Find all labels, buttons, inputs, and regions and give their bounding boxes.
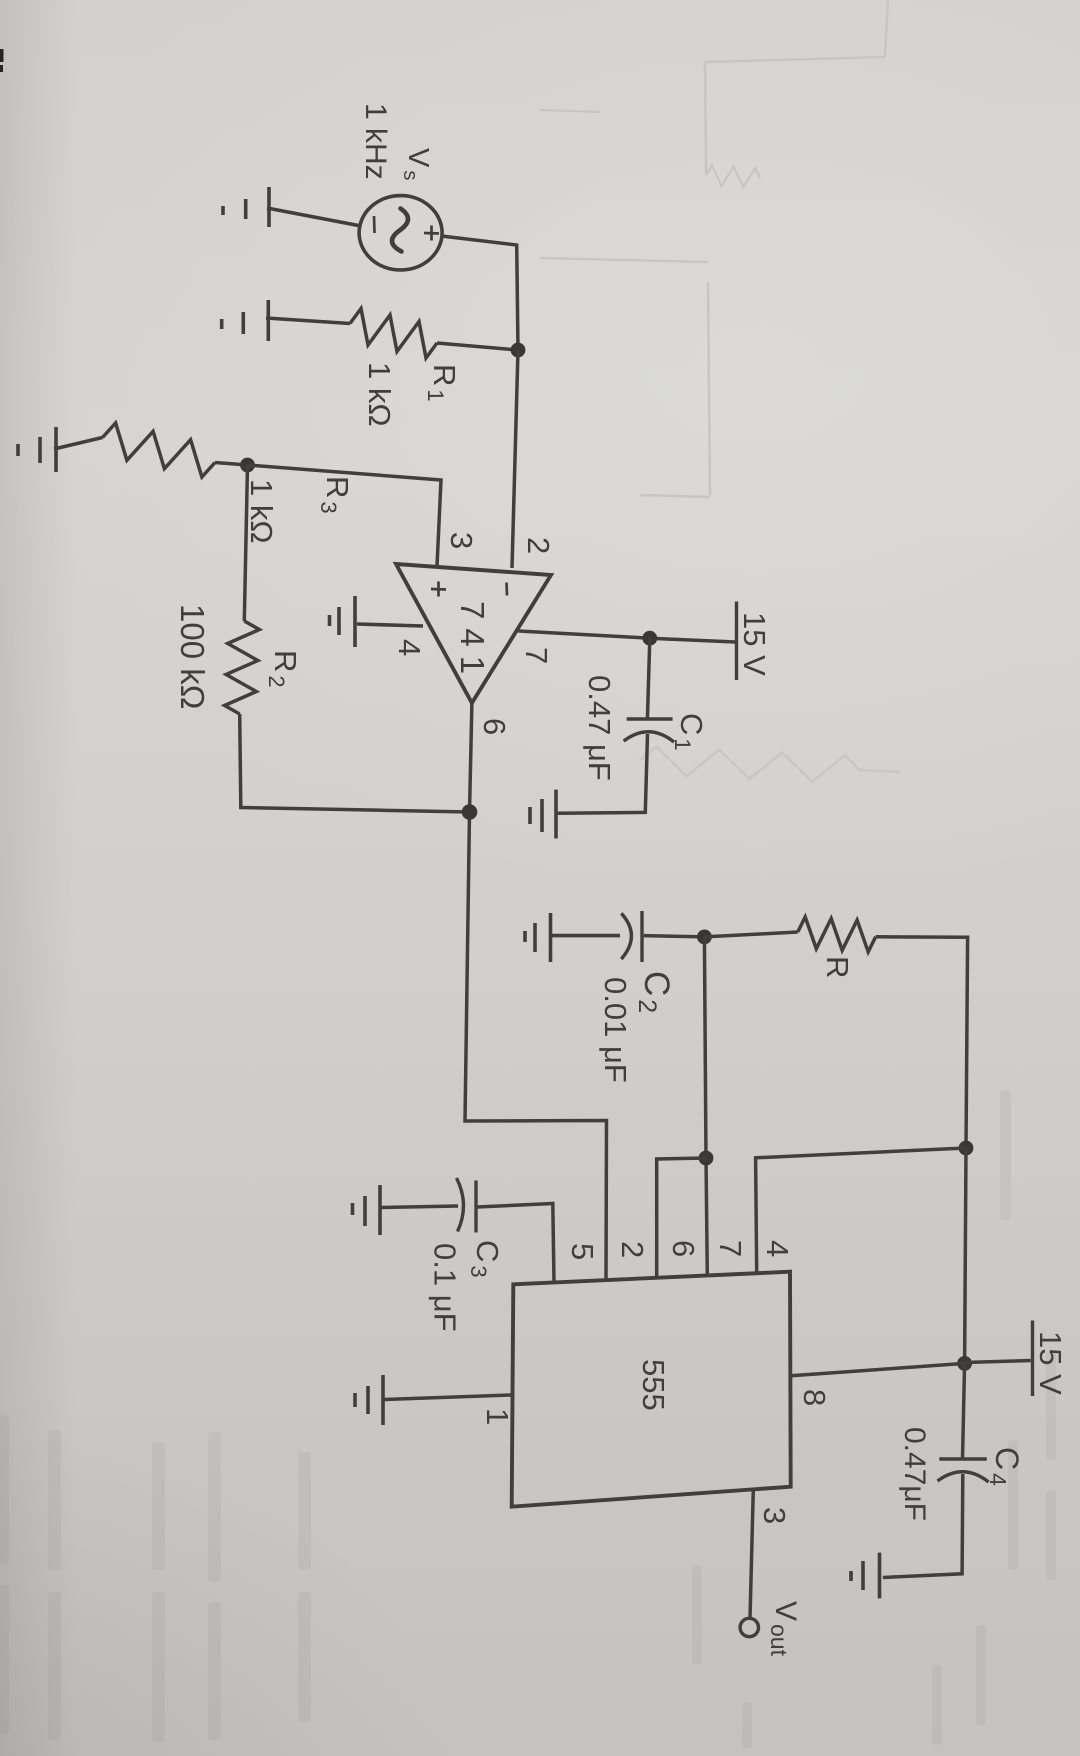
svg-text:3: 3 (444, 532, 479, 549)
svg-text:C1: C1 (670, 713, 709, 751)
svg-text:0.1 μF: 0.1 μF (428, 1243, 463, 1332)
svg-text:6: 6 (666, 1240, 701, 1257)
svg-text:6: 6 (477, 718, 512, 735)
svg-text:741: 741 (454, 601, 491, 683)
svg-text:4: 4 (392, 639, 427, 656)
svg-text:7: 7 (519, 647, 554, 664)
svg-text:2: 2 (521, 537, 556, 554)
svg-text:C4: C4 (985, 1447, 1025, 1486)
svg-text:4: 4 (760, 1240, 795, 1257)
svg-text:8: 8 (797, 1389, 832, 1406)
svg-text:C2: C2 (633, 971, 676, 1013)
svg-text:R: R (820, 956, 855, 978)
svg-text:3: 3 (757, 1507, 792, 1524)
svg-text:Vs: Vs (399, 148, 434, 180)
svg-text:1 kΩ: 1 kΩ (362, 362, 397, 427)
svg-text:1 kHz: 1 kHz (359, 103, 392, 180)
svg-text:0.47μF: 0.47μF (898, 1427, 931, 1521)
svg-text:15 V: 15 V (737, 612, 772, 676)
svg-text:100 kΩ: 100 kΩ (174, 604, 211, 709)
svg-text:15 V: 15 V (1033, 1331, 1068, 1395)
svg-text:1 kΩ: 1 kΩ (244, 479, 279, 544)
svg-text:C3: C3 (466, 1240, 505, 1278)
svg-text:R3: R3 (316, 476, 355, 514)
svg-text:R2: R2 (264, 650, 303, 688)
svg-text:5: 5 (565, 1243, 600, 1260)
svg-text:2: 2 (615, 1241, 650, 1258)
svg-text:Vout: Vout (766, 1601, 802, 1657)
svg-text:0.47 μF: 0.47 μF (582, 675, 617, 781)
svg-text:1: 1 (480, 1408, 515, 1425)
svg-text:0.01 μF: 0.01 μF (598, 977, 633, 1083)
svg-text:555: 555 (636, 1359, 671, 1411)
svg-text:R1: R1 (423, 364, 462, 402)
svg-text:7: 7 (713, 1240, 748, 1257)
